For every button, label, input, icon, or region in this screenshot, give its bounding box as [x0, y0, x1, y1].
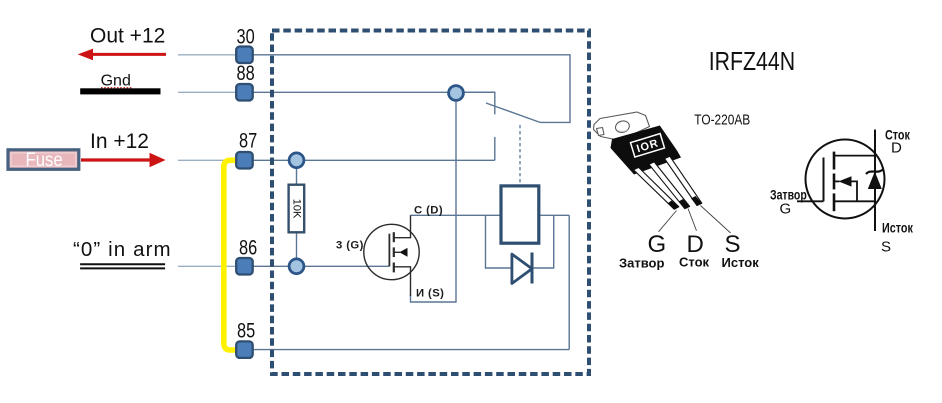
svg-text:Сток: Сток: [679, 255, 710, 270]
svg-text:“0” in arm: “0” in arm: [73, 238, 172, 261]
svg-text:Fuse: Fuse: [26, 149, 63, 170]
svg-text:S: S: [881, 239, 891, 256]
svg-text:Затвор: Затвор: [619, 256, 665, 271]
svg-text:87: 87: [239, 129, 257, 152]
svg-text:85: 85: [237, 319, 255, 342]
svg-text:И (S): И (S): [416, 287, 444, 299]
svg-text:G: G: [648, 231, 667, 258]
svg-text:Исток: Исток: [882, 220, 914, 235]
svg-text:10K: 10K: [291, 199, 303, 219]
svg-text:S: S: [725, 231, 741, 258]
svg-text:Исток: Исток: [722, 255, 760, 270]
svg-text:D: D: [891, 140, 902, 157]
svg-text:88: 88: [237, 61, 255, 84]
svg-text:3 (G): 3 (G): [336, 239, 364, 251]
svg-text:Out +12: Out +12: [90, 25, 165, 48]
svg-text:C (D): C (D): [414, 204, 443, 216]
svg-text:G: G: [780, 201, 792, 218]
svg-text:IRFZ44N: IRFZ44N: [709, 47, 795, 77]
svg-text:In +12: In +12: [90, 130, 149, 153]
svg-text:86: 86: [239, 236, 257, 259]
svg-text:Gnd: Gnd: [101, 73, 131, 90]
svg-text:30: 30: [237, 25, 255, 48]
svg-text:TO-220AB: TO-220AB: [694, 111, 750, 127]
